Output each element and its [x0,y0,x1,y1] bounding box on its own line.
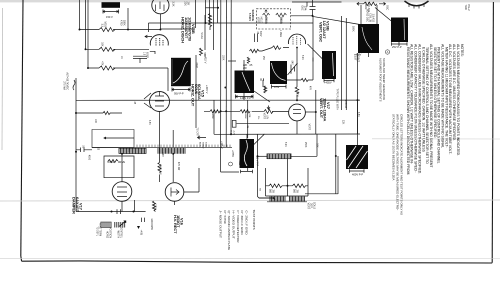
svg-text:GEND: GEND [202,142,204,149]
svg-text:V16: V16 [180,218,185,226]
svg-text:2MEG: 2MEG [265,17,267,24]
svg-text:MEG: MEG [104,22,107,28]
svg-text:12K: 12K [342,120,345,125]
svg-text:POSITION: POSITION [109,227,111,238]
svg-text:1K: 1K [120,56,122,59]
svg-text:10K: 10K [94,119,96,124]
svg-text:330K: 330K [244,114,246,120]
svg-text:4500: 4500 [88,155,90,161]
svg-text:VERT: VERT [263,113,266,120]
svg-text:+125: +125 [233,130,235,136]
svg-text:5%: 5% [257,116,259,119]
svg-text:OSC ADJ: OSC ADJ [367,2,370,13]
svg-text:SCOPE AND SWEEP GENERATOR: SCOPE AND SWEEP GENERATOR [382,58,386,100]
svg-text:95V P-P: 95V P-P [174,92,184,96]
svg-text:22K: 22K [248,114,250,118]
svg-text:V17: V17 [79,203,84,211]
svg-text:+135 V: +135 V [220,141,223,149]
svg-text:3.3K: 3.3K [172,2,175,7]
svg-text:LIN: LIN [266,115,269,119]
svg-text:VERT: VERT [307,203,310,210]
svg-text:.0047: .0047 [195,62,197,68]
svg-text:POINT: POINT [357,54,361,62]
svg-text:47K 2W: 47K 2W [177,162,179,171]
svg-text:1 MEG: 1 MEG [279,30,281,37]
svg-text:270 MA: 270 MA [63,81,66,90]
svg-text:500K: 500K [352,26,355,32]
svg-text:47K: 47K [309,86,311,91]
svg-text:7MA: 7MA [238,161,241,166]
svg-text:SOURCE: SOURCE [251,10,255,22]
svg-text:HOLD: HOLD [260,17,262,24]
svg-text:V10B: V10B [326,21,331,31]
svg-text:25K: 25K [262,56,264,61]
svg-text:CONTROL: CONTROL [120,227,122,239]
svg-text:MAX 815V: MAX 815V [150,219,153,231]
svg-text:22K: 22K [184,2,187,7]
svg-text:5000: 5000 [205,142,207,148]
svg-text:+415 V: +415 V [204,55,208,64]
svg-text:ALT=18.7KVDC: ALT=18.7KVDC [66,72,69,90]
svg-text:100K: 100K [211,114,213,120]
svg-text:150K: 150K [222,55,224,61]
svg-text:140V P-P: 140V P-P [240,96,251,100]
svg-text:250K: 250K [304,142,306,148]
svg-text:1.5 ADJ: 1.5 ADJ [372,14,375,23]
svg-text:WIDTH: WIDTH [117,230,119,238]
svg-text:A: A [387,50,389,54]
svg-text:3,250 Ω: 3,250 Ω [344,100,347,109]
svg-text:HORIZ: HORIZ [107,162,115,164]
svg-text:560: 560 [293,189,296,194]
svg-text:V17: V17 [326,102,331,110]
svg-text:V14B: V14B [191,24,196,34]
svg-text:400V P-P: 400V P-P [352,173,363,177]
svg-text:25V P-P: 25V P-P [392,45,402,49]
svg-text:V14A: V14A [200,32,204,39]
svg-text:.047: .047 [291,60,293,65]
svg-text:TEST POINTS: TEST POINTS [252,210,256,230]
svg-text:36 V: 36 V [230,130,232,135]
svg-text:+405: +405 [140,230,143,236]
svg-text:6.8K: 6.8K [357,112,359,117]
svg-text:+455V: +455V [324,81,332,85]
svg-text:150 V: 150 V [106,15,113,19]
svg-text:1MEG: 1MEG [280,17,282,24]
svg-text:J− NOISE OUTPUT: J− NOISE OUTPUT [219,211,223,239]
svg-text:HORIZ: HORIZ [364,2,367,10]
svg-text:ALIGNMENT POINT ADJUSTMENTS: ALIGNMENT POINT ADJUSTMENTS [379,58,383,102]
svg-text:410 V P-P: 410 V P-P [256,155,259,166]
svg-text:COIL 35: COIL 35 [369,13,372,22]
svg-text:+415 V: +415 V [205,85,209,94]
svg-text:8.2K: 8.2K [301,55,303,60]
svg-text:TO DEFL: TO DEFL [96,226,98,236]
svg-text:10K: 10K [101,42,104,47]
svg-text:HORIZ: HORIZ [106,231,108,239]
svg-text:VERT: VERT [308,124,311,131]
svg-text:RESISTANCE MEASUREMENTS SHOWN: RESISTANCE MEASUREMENTS SHOWN WITH CELLO… [406,47,410,175]
svg-text:.068: .068 [161,152,163,157]
svg-text:PG-2: PG-2 [467,5,471,12]
svg-text:600V: 600V [259,31,261,37]
svg-text:OSC: OSC [301,5,304,10]
svg-text:47K: 47K [101,61,104,66]
svg-text:YOKE TERM: YOKE TERM [99,223,101,237]
svg-text:6.8K: 6.8K [148,120,150,125]
svg-text:DRIVE: DRIVE [118,162,125,164]
svg-text:820K: 820K [296,91,299,97]
svg-text:+275V: +275V [231,150,234,157]
svg-text:47K 2W: 47K 2W [159,166,162,175]
svg-text:STATICALLY ONLY AS 15376 BECOM: STATICALLY ONLY AS 15376 BECOMES 63.2EA [392,114,396,180]
svg-text:180K: 180K [123,20,126,26]
svg-text:VERT: VERT [257,17,259,24]
svg-text:4700: 4700 [120,20,123,26]
svg-text:10K: 10K [316,143,319,148]
svg-text:ACS: ACS [199,142,202,147]
svg-text:6SN7: 6SN7 [146,52,148,58]
svg-text:OSC: OSC [386,5,389,10]
svg-text:270K: 270K [154,204,157,210]
svg-text:TYPE PULSE WITH: TYPE PULSE WITH [336,88,339,110]
svg-text:COILS: COILS [313,202,316,210]
svg-text:4.5V: 4.5V [274,85,280,89]
svg-text:TO CRT: TO CRT [196,128,198,137]
svg-text:8.2K: 8.2K [284,142,286,147]
svg-text:560: 560 [269,189,272,194]
svg-text:DEFL: DEFL [310,203,313,210]
